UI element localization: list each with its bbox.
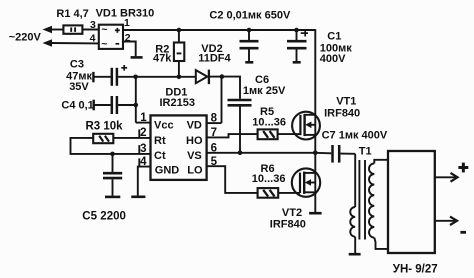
svg-text:Vcc: Vcc (154, 120, 174, 132)
node junction R2 top (177, 28, 182, 33)
label VD2 11DF4 (198, 43, 231, 65)
wire Vcc bus down (135, 77, 137, 123)
transistor VT1 (292, 112, 320, 140)
svg-text:10...36: 10...36 (252, 117, 286, 129)
svg-text:1: 1 (140, 112, 147, 124)
svg-text:~220V: ~220V (9, 32, 42, 44)
capacitor C4 (94, 96, 136, 114)
wire HO to R5 (207, 134, 258, 137)
wire VD1 pin2 to ground (123, 42, 136, 57)
node junction C2 top (247, 28, 252, 33)
output minus wire (435, 220, 457, 222)
wire primary to ground (354, 237, 356, 254)
svg-text:Ct: Ct (154, 150, 166, 162)
svg-text:C2 0,01мк 650V: C2 0,01мк 650V (209, 9, 291, 21)
wire (82, 29, 98, 31)
ground (105, 196, 120, 199)
ground (293, 61, 301, 64)
node junction VS VT (313, 151, 318, 156)
capacitor C7 (333, 145, 356, 163)
ground (309, 212, 322, 215)
IC DD1 IR2153 (151, 115, 207, 179)
svg-text:~: ~ (101, 38, 107, 50)
resistor R6 (258, 188, 300, 198)
wire C6 top (222, 77, 241, 99)
label DD1 IR2153 (160, 86, 195, 109)
output minus arrow (450, 217, 457, 225)
svg-text:2200: 2200 (100, 211, 126, 223)
svg-text:VD: VD (187, 120, 202, 132)
capacitor C1 (287, 30, 308, 62)
transformer T1 primary winding (350, 207, 355, 237)
wire C7 to primary (354, 154, 356, 207)
transformer T1 core (359, 160, 365, 240)
pin 2 tick (138, 129, 140, 137)
svg-text:LO: LO (187, 164, 203, 176)
block UN box (388, 151, 435, 253)
resistor R5 (258, 129, 301, 139)
wire LO to R6 (207, 166, 258, 193)
node junction C6 VS (238, 151, 243, 156)
svg-text:T1: T1 (359, 146, 372, 158)
node junction VD2 cathode (220, 74, 225, 79)
capacitor C2 (240, 30, 259, 61)
wire secondary top (374, 160, 388, 164)
svg-text:R1 4,7: R1 4,7 (56, 8, 88, 20)
wire top rail (123, 29, 315, 31)
ground (349, 253, 361, 256)
ground (245, 61, 253, 64)
node junction C3 (133, 75, 138, 80)
label VT1 IRF840 (324, 96, 360, 120)
svg-text:400V: 400V (320, 53, 346, 65)
label VT2 IRF840 (270, 207, 306, 231)
output plus arrow (451, 173, 458, 182)
svg-text:VS: VS (187, 150, 202, 162)
svg-text:11DF4: 11DF4 (198, 53, 231, 65)
wire pin4 GND to ground (138, 167, 151, 196)
svg-text:HO: HO (186, 135, 203, 147)
label C5 2200 (82, 211, 126, 223)
svg-text:~: ~ (101, 24, 107, 36)
input arrow bottom (43, 39, 53, 47)
wire pin8 stub (207, 122, 222, 124)
svg-text:IRF840: IRF840 (324, 107, 360, 119)
label R2 47k (153, 43, 172, 64)
node junction Ct (110, 152, 115, 157)
pin 4 tick (138, 158, 140, 166)
svg-text:C1: C1 (327, 30, 341, 42)
svg-text:1мк 25V: 1мк 25V (243, 85, 286, 97)
resistor R3 (93, 134, 150, 143)
svg-text:3: 3 (90, 19, 96, 31)
node junction C1 top (294, 28, 299, 33)
svg-text:IRF840: IRF840 (270, 219, 306, 231)
diode VD2 (196, 70, 222, 85)
wire pin1 stub (136, 122, 151, 124)
node junction R2 bottom (177, 75, 182, 80)
label R5 (252, 106, 286, 129)
ground (131, 56, 143, 59)
label C1 (320, 30, 352, 65)
svg-text:10...36: 10...36 (252, 173, 286, 185)
capacitor C6 (228, 100, 252, 153)
node junction C4 (134, 103, 139, 108)
wire (51, 42, 99, 44)
svg-text:Rt: Rt (154, 135, 166, 147)
label R6 (252, 163, 286, 185)
label minus (460, 231, 466, 234)
svg-text:VT2: VT2 (282, 207, 302, 219)
wire secondary bottom (374, 238, 388, 249)
svg-text:C4 0,1: C4 0,1 (61, 100, 93, 112)
ground (131, 196, 145, 199)
wire VD2 to pin 8 (221, 77, 223, 124)
svg-text:VT1: VT1 (336, 96, 356, 108)
wire right rail through VT1 (314, 29, 316, 153)
bridge rectifier VD1 (99, 24, 123, 51)
wire VS rail (207, 152, 316, 154)
label plus (458, 163, 468, 173)
svg-text:УН- 9/27: УН- 9/27 (393, 264, 438, 276)
output plus wire (435, 176, 457, 178)
wire VT2 drain and source (314, 153, 316, 212)
input arrow top (43, 26, 53, 34)
wire (51, 29, 63, 31)
svg-text:C3: C3 (70, 59, 84, 71)
svg-text:C6: C6 (255, 74, 269, 86)
wire VS to C7 (315, 152, 331, 155)
svg-text:C7 1мк 400V: C7 1мк 400V (322, 130, 388, 142)
svg-text:C5: C5 (82, 211, 97, 223)
svg-text:R3 10k: R3 10k (86, 121, 124, 133)
wire Vcc node (136, 76, 195, 78)
wire R3 loop to Ct (71, 138, 151, 154)
svg-text:IR2153: IR2153 (160, 97, 195, 109)
svg-text:4: 4 (90, 32, 96, 44)
svg-text:8: 8 (211, 113, 218, 125)
pin 3 tick (138, 145, 140, 154)
resistor R2 (174, 30, 184, 77)
label C6 (243, 74, 286, 97)
svg-text:35V: 35V (69, 81, 89, 93)
resistor R1 (63, 25, 82, 33)
capacitor C5 (103, 154, 122, 196)
transistor VT2 (292, 168, 320, 196)
svg-text:1: 1 (124, 17, 130, 29)
svg-text:47k: 47k (153, 52, 172, 64)
capacitor C3 (93, 65, 135, 86)
transformer T1 secondary winding (369, 163, 374, 237)
svg-text:GND: GND (155, 164, 180, 176)
label C3 (66, 59, 92, 94)
